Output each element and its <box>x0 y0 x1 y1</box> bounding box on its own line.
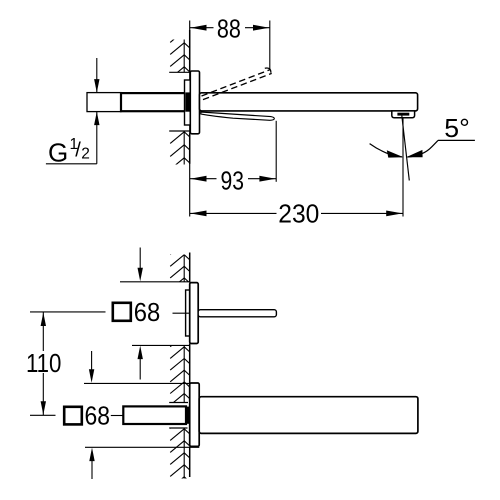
svg-text:110: 110 <box>26 350 62 378</box>
svg-text:68: 68 <box>134 299 161 327</box>
svg-text:88: 88 <box>217 16 241 44</box>
svg-text:93: 93 <box>221 168 245 196</box>
svg-text:2: 2 <box>81 146 90 163</box>
svg-text:230: 230 <box>278 200 319 228</box>
svg-text:/: / <box>75 140 81 162</box>
svg-text:G: G <box>48 137 68 167</box>
svg-text:68: 68 <box>85 403 111 431</box>
svg-text:5°: 5° <box>444 113 470 143</box>
